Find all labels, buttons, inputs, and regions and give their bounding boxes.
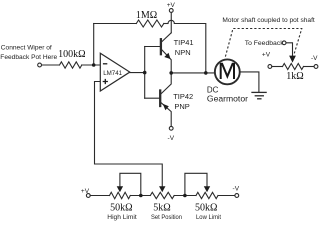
svg-text:PNP: PNP <box>174 102 189 111</box>
svg-text:5kΩ: 5kΩ <box>153 203 170 214</box>
svg-text:+V: +V <box>262 52 271 59</box>
svg-text:-V: -V <box>168 135 175 142</box>
svg-text:Gearmotor: Gearmotor <box>207 94 248 104</box>
svg-text:To Feedback: To Feedback <box>245 40 285 47</box>
svg-text:LM741: LM741 <box>103 70 122 77</box>
svg-text:50kΩ: 50kΩ <box>110 203 132 214</box>
svg-text:Connect Wiper of: Connect Wiper of <box>1 45 52 52</box>
svg-text:1kΩ: 1kΩ <box>286 71 303 82</box>
svg-text:High Limit: High Limit <box>107 214 137 221</box>
svg-text:TIP42: TIP42 <box>173 92 193 101</box>
svg-text:Set Position: Set Position <box>151 214 182 221</box>
svg-text:-V: -V <box>233 186 240 193</box>
svg-text:-V: -V <box>311 55 318 62</box>
svg-text:Motor shaft coupled to pot sha: Motor shaft coupled to pot shaft <box>222 17 315 24</box>
svg-text:Low Limit: Low Limit <box>196 214 221 221</box>
svg-text:1MΩ: 1MΩ <box>136 10 157 21</box>
svg-text:100kΩ: 100kΩ <box>58 49 85 60</box>
svg-text:TIP41: TIP41 <box>174 38 194 47</box>
svg-text:+V: +V <box>167 2 176 9</box>
svg-text:NPN: NPN <box>175 48 191 57</box>
svg-text:Feedback Pot Here: Feedback Pot Here <box>0 54 57 61</box>
svg-text:50kΩ: 50kΩ <box>195 203 217 214</box>
svg-text:+V: +V <box>81 188 90 195</box>
